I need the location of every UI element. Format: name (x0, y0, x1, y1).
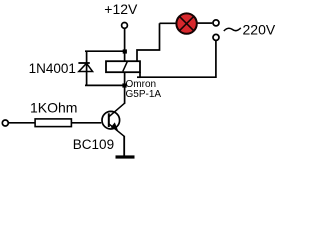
svg-text:G5P-1A: G5P-1A (126, 89, 162, 100)
svg-text:220V: 220V (243, 22, 276, 38)
svg-text:BC109: BC109 (73, 137, 114, 152)
svg-text:1KOhm: 1KOhm (30, 99, 77, 115)
svg-text:+12V: +12V (104, 1, 138, 17)
svg-text:1N4001: 1N4001 (29, 61, 76, 76)
